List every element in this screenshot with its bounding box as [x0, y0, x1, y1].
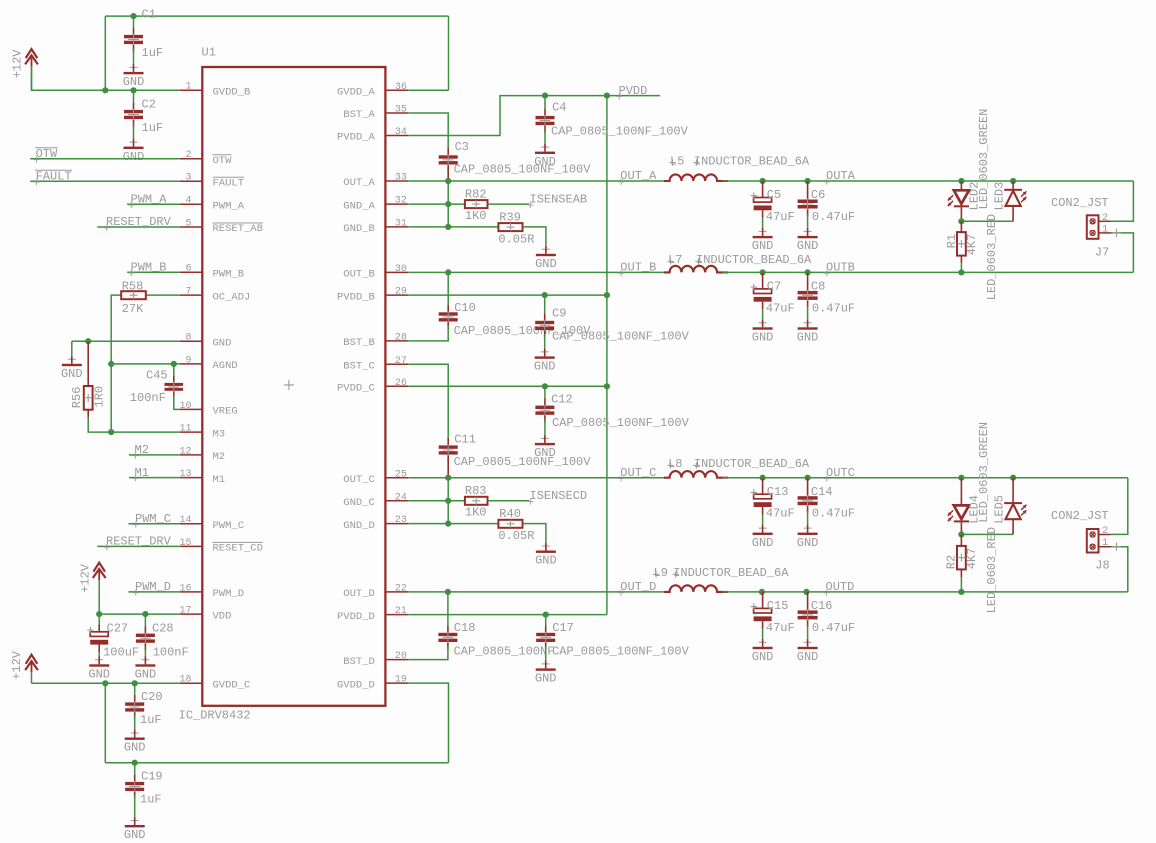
- svg-text:C3: C3: [455, 140, 469, 154]
- ground: [752, 227, 774, 253]
- U1 pin 10 (VREG): [179, 401, 237, 418]
- svg-text:C6: C6: [811, 188, 825, 202]
- capacitor C10: [439, 301, 476, 329]
- node C6 junction: [805, 178, 811, 184]
- wire C28 to ground: [144, 647, 146, 657]
- ground: [124, 729, 146, 755]
- wire C5 top lead: [762, 181, 764, 191]
- net label PWM_D: [133, 580, 171, 596]
- svg-text:INDUCTOR_BEAD_6A: INDUCTOR_BEAD_6A: [694, 457, 810, 471]
- J7 pin 2: [1099, 220, 1111, 222]
- svg-text:GND: GND: [797, 650, 819, 664]
- svg-text:+12V: +12V: [11, 49, 25, 79]
- capacitor C15 (polarized): [751, 599, 795, 635]
- net label ISENSEAB: [527, 192, 587, 208]
- wire C12 to ground: [544, 419, 546, 435]
- svg-text:PWM_D: PWM_D: [213, 588, 245, 600]
- node OUT_A bootstrap junction: [445, 178, 451, 184]
- U1 pin 24 (GND_C): [343, 492, 408, 509]
- svg-text:GND: GND: [123, 75, 145, 89]
- wire C9 to ground: [544, 334, 546, 348]
- wire LED cathode node row1: [961, 220, 1013, 222]
- svg-text:J8: J8: [1095, 559, 1109, 573]
- svg-text:LED5: LED5: [992, 495, 1006, 524]
- svg-text:AGND: AGND: [213, 360, 238, 372]
- svg-text:GVDD_A: GVDD_A: [337, 87, 376, 99]
- ground: [535, 660, 557, 686]
- inductor L7: [664, 253, 812, 272]
- svg-text:INDUCTOR_BEAD_6A: INDUCTOR_BEAD_6A: [673, 566, 789, 580]
- U1 pin 27 (BST_C): [343, 356, 408, 373]
- svg-text:LED3: LED3: [992, 182, 1006, 211]
- ground: [123, 138, 145, 164]
- capacitor C45: [146, 369, 183, 399]
- svg-text:J7: J7: [1095, 245, 1109, 259]
- wire GND_D pin 23: [408, 523, 498, 525]
- svg-text:+12V: +12V: [78, 563, 92, 593]
- node C27 junction: [96, 611, 102, 617]
- wire OUT_D pin 22 to inductor: [408, 591, 664, 593]
- ground: [535, 542, 557, 568]
- wire OUT_B after inductor: [723, 271, 1134, 273]
- wire OUT_B pin 30 to inductor: [408, 271, 664, 273]
- svg-text:U1: U1: [202, 46, 216, 60]
- wire C15 to ground: [762, 629, 764, 639]
- wire C10 to BST_B pin 28: [408, 326, 448, 341]
- svg-text:LED_0603_RED: LED_0603_RED: [985, 214, 999, 300]
- svg-text:GND: GND: [135, 668, 157, 682]
- net label RESET_DRV: [104, 215, 172, 231]
- svg-text:4: 4: [185, 196, 191, 207]
- ground: [752, 638, 774, 664]
- svg-text:32: 32: [395, 196, 407, 207]
- svg-text:4K7: 4K7: [965, 234, 979, 256]
- U1 pin 31 (GND_B): [343, 219, 408, 236]
- wire PVDD_A pin 34 to PVDD rail: [408, 96, 660, 136]
- wire C8 top lead: [807, 272, 809, 284]
- svg-text:10: 10: [179, 401, 191, 412]
- wire VDD pin 17: [99, 613, 180, 615]
- wire OUT_B down to C10: [447, 272, 449, 304]
- node PVDD C4 junction: [542, 93, 548, 99]
- wire C4 top lead: [544, 96, 546, 109]
- svg-text:36: 36: [395, 82, 407, 93]
- svg-text:3: 3: [185, 173, 191, 184]
- svg-text:R40: R40: [499, 507, 521, 521]
- svg-text:LED_0603_GREEN: LED_0603_GREEN: [977, 422, 991, 523]
- wire GND_A pin 32: [408, 203, 465, 205]
- ground: [123, 63, 145, 89]
- svg-text:6: 6: [185, 264, 191, 275]
- svg-text:C12: C12: [551, 393, 573, 407]
- svg-text:CAP_0805_100NF_100V: CAP_0805_100NF_100V: [552, 644, 690, 658]
- wire C17 top lead: [545, 615, 547, 626]
- wire M1: [129, 477, 180, 479]
- inductor L5: [664, 154, 810, 181]
- svg-text:C27: C27: [107, 621, 129, 635]
- svg-text:0.05R: 0.05R: [498, 529, 534, 543]
- svg-text:GND_B: GND_B: [343, 223, 375, 235]
- LED LED5: [1004, 478, 1026, 535]
- LED LED2: [948, 181, 969, 221]
- ground: [534, 348, 556, 374]
- svg-text:PWM_B: PWM_B: [213, 268, 245, 280]
- wire +12V to pin 1 GVDD_B: [32, 67, 180, 90]
- svg-text:GND: GND: [752, 650, 774, 664]
- svg-text:OUTD: OUTD: [826, 580, 855, 594]
- ground: [797, 638, 819, 664]
- U1 pin 3 (FAULT): [180, 173, 244, 190]
- svg-text:GND: GND: [124, 741, 146, 755]
- svg-text:OUT_C: OUT_C: [343, 474, 375, 486]
- svg-text:100uF: 100uF: [103, 645, 139, 659]
- svg-text:GND: GND: [797, 239, 819, 253]
- U1 pin 25 (OUT_C): [343, 469, 408, 486]
- wire C19 top lead: [134, 763, 136, 775]
- svg-text:C13: C13: [767, 485, 789, 499]
- svg-text:1uF: 1uF: [142, 46, 164, 60]
- U1 pin 15 (RESET_CD): [179, 538, 262, 555]
- svg-text:CAP_0805_100NF_100V: CAP_0805_100NF_100V: [454, 455, 592, 469]
- wire BST_C pin 27 down: [408, 364, 448, 438]
- U1 pin 17 (VDD): [179, 606, 231, 623]
- J8 pin 1: [1099, 546, 1111, 548]
- wire C3 to OUT_A: [447, 168, 449, 181]
- svg-text:CAP_0805_100NF_100V: CAP_0805_100NF_100V: [551, 125, 689, 139]
- inductor L8: [664, 457, 810, 478]
- svg-text:C15: C15: [767, 599, 789, 613]
- svg-text:13: 13: [179, 469, 191, 480]
- U1 pin 12 (M2): [179, 446, 225, 463]
- wire GVDD_A pin 36: [408, 89, 448, 91]
- svg-text:GVDD_C: GVDD_C: [213, 680, 251, 692]
- wire C11 to OUT_C: [447, 459, 449, 478]
- wire C18 to BST_D pin 20: [408, 646, 448, 660]
- capacitor C19: [125, 769, 162, 798]
- U1 pin 35 (BST_A): [343, 105, 408, 122]
- svg-text:FAULT: FAULT: [213, 178, 245, 190]
- U1 pin 19 (GVDD_D): [337, 675, 408, 692]
- svg-text:9: 9: [185, 355, 191, 366]
- net label OUTD: [823, 580, 854, 596]
- J8 pin 2: [1099, 534, 1111, 536]
- U1 pin 11 (M3): [179, 424, 225, 441]
- resistor R1 leads: [960, 221, 962, 232]
- svg-text:OUTA: OUTA: [826, 169, 856, 183]
- wire OUT_A after inductor: [723, 180, 1134, 182]
- svg-text:GND_D: GND_D: [343, 520, 375, 532]
- svg-text:GND: GND: [124, 828, 146, 842]
- ground: [797, 524, 819, 550]
- svg-text:+12V: +12V: [10, 650, 24, 680]
- svg-text:PVDD_A: PVDD_A: [337, 132, 376, 144]
- wire GND pin 8: [72, 340, 180, 342]
- wire OC_ADJ right of R58: [146, 294, 180, 296]
- wire C14 top lead: [807, 478, 809, 490]
- svg-text:GND: GND: [535, 554, 557, 568]
- +12V supply: [78, 563, 105, 614]
- svg-text:GND: GND: [534, 155, 556, 169]
- U1 pin 6 (PWM_B): [180, 264, 244, 281]
- svg-text:26: 26: [395, 378, 407, 389]
- wire RESET_AB: [97, 226, 179, 228]
- svg-text:VDD: VDD: [213, 610, 232, 622]
- wire C20 to ground: [134, 716, 136, 730]
- svg-text:GND: GND: [61, 367, 83, 381]
- svg-text:OUT_A: OUT_A: [343, 177, 375, 189]
- ground: [535, 245, 557, 271]
- node C17 junction: [543, 612, 549, 618]
- svg-text:8: 8: [185, 333, 191, 344]
- ground: [534, 434, 556, 460]
- svg-text:C16: C16: [811, 599, 833, 613]
- net label OUT_A: [618, 169, 657, 185]
- svg-text:C45: C45: [146, 369, 168, 383]
- wire R58 left down to AGND/M3: [111, 295, 121, 432]
- svg-text:M1: M1: [135, 466, 149, 480]
- svg-text:0.47uF: 0.47uF: [812, 210, 855, 224]
- wire M2: [129, 454, 180, 456]
- IC U1 DRV8432: [179, 46, 386, 723]
- node +12V junction: [102, 87, 108, 93]
- svg-text:RESET_CD: RESET_CD: [213, 543, 263, 555]
- U1 pin 28 (BST_B): [343, 333, 408, 350]
- wire C20 top lead: [134, 683, 136, 695]
- wire C16 to ground: [807, 625, 809, 639]
- node C7 junction: [760, 269, 766, 275]
- svg-text:M3: M3: [213, 428, 226, 440]
- svg-text:OTW: OTW: [36, 147, 58, 161]
- node GVDD_C junction A: [102, 680, 108, 686]
- resistor R83: [465, 484, 488, 519]
- capacitor C1: [124, 8, 156, 52]
- svg-text:C5: C5: [767, 188, 781, 202]
- net label RESET_DRV: [104, 535, 172, 551]
- +12V supply: [11, 49, 38, 91]
- wire C27 to ground: [98, 652, 100, 656]
- svg-text:CON2_JST: CON2_JST: [1051, 509, 1109, 523]
- svg-text:BST_B: BST_B: [343, 337, 375, 349]
- capacitor C28: [136, 621, 174, 650]
- wire OUT_D down to C18: [447, 592, 449, 625]
- svg-text:INDUCTOR_BEAD_6A: INDUCTOR_BEAD_6A: [696, 253, 812, 267]
- inductor L9: [653, 566, 789, 592]
- svg-text:C19: C19: [141, 769, 163, 783]
- wire C4 to ground: [544, 129, 546, 144]
- node C9 junction: [542, 292, 548, 298]
- U1 pin 9 (AGND): [180, 355, 238, 372]
- svg-text:47uF: 47uF: [766, 621, 795, 635]
- wire C7 top lead: [762, 272, 764, 282]
- ground: [124, 817, 146, 843]
- svg-text:R58: R58: [122, 280, 144, 294]
- svg-text:RESET_DRV: RESET_DRV: [106, 535, 172, 549]
- svg-text:CON2_JST: CON2_JST: [1051, 196, 1109, 210]
- svg-text:GND: GND: [535, 257, 557, 271]
- svg-text:16: 16: [179, 583, 191, 594]
- svg-text:31: 31: [395, 219, 407, 230]
- svg-text:FAULT: FAULT: [36, 170, 72, 184]
- ground: [752, 524, 774, 550]
- svg-text:OUTC: OUTC: [826, 466, 855, 480]
- wire C8 to ground: [807, 305, 809, 319]
- svg-text:47uF: 47uF: [766, 507, 795, 521]
- net label OUT_B: [618, 261, 656, 277]
- svg-text:GND: GND: [213, 337, 232, 349]
- svg-text:R56: R56: [70, 387, 84, 409]
- capacitor C6: [798, 188, 826, 216]
- capacitor C20: [125, 690, 162, 719]
- node C8 junction: [805, 269, 811, 275]
- svg-text:OUT_D: OUT_D: [343, 588, 375, 600]
- svg-text:C1: C1: [142, 8, 156, 22]
- net label OUTB: [824, 261, 855, 277]
- wire R56 top lead: [87, 341, 89, 386]
- svg-text:GVDD_B: GVDD_B: [213, 87, 251, 99]
- net label PWM_B: [128, 260, 166, 276]
- svg-text:GND: GND: [535, 672, 557, 686]
- wire PVDD_D pin 21: [408, 614, 607, 616]
- svg-text:1: 1: [1102, 538, 1108, 549]
- svg-text:PVDD_B: PVDD_B: [337, 291, 375, 303]
- net label OUTC: [824, 466, 855, 482]
- svg-text:GND_A: GND_A: [343, 200, 375, 212]
- capacitor C9: [535, 306, 566, 337]
- wire R56 to M3 row: [88, 417, 111, 432]
- svg-text:M2: M2: [213, 451, 226, 463]
- wire top rail: [105, 15, 448, 17]
- svg-text:1K0: 1K0: [465, 506, 487, 520]
- wire top rail down to GVDD_A: [448, 16, 450, 90]
- wire R40 to ground: [523, 524, 546, 543]
- resistor R2: [944, 546, 979, 570]
- wire LED cathode node row2: [961, 533, 1013, 535]
- capacitor C11: [439, 433, 476, 463]
- svg-text:GND: GND: [797, 536, 819, 550]
- wire OUT_C rail down to J8: [1110, 478, 1128, 535]
- LED LED3: [1004, 181, 1026, 221]
- svg-text:R82: R82: [465, 187, 487, 201]
- ground: [797, 319, 819, 345]
- wire PVDD vertical rail: [606, 96, 608, 615]
- node LED3 junction: [1010, 178, 1016, 184]
- resistor R40: [498, 507, 534, 543]
- node C19 junction: [132, 760, 138, 766]
- svg-text:27: 27: [395, 356, 407, 367]
- svg-text:5: 5: [185, 218, 191, 229]
- svg-text:47uF: 47uF: [766, 301, 795, 315]
- connector J7 (CON2_JST): [1051, 196, 1121, 259]
- U1 pin 16 (PWM_D): [179, 583, 244, 600]
- svg-text:C28: C28: [152, 621, 174, 635]
- node C2 junction: [130, 87, 136, 93]
- svg-text:15: 15: [179, 538, 191, 549]
- wire C13 top lead: [762, 478, 764, 488]
- wire C7 to ground: [762, 309, 764, 319]
- LED LED4: [948, 478, 969, 535]
- node OUT_B bootstrap junction: [445, 269, 451, 275]
- svg-text:100nF: 100nF: [153, 645, 189, 659]
- node GND_D junction: [445, 521, 451, 527]
- svg-text:R1: R1: [945, 234, 959, 248]
- svg-text:PWM_C: PWM_C: [135, 512, 171, 526]
- svg-text:OUT_B: OUT_B: [343, 269, 375, 281]
- svg-text:INDUCTOR_BEAD_6A: INDUCTOR_BEAD_6A: [694, 154, 810, 168]
- wire C9 top lead: [544, 295, 546, 313]
- wire BST_A pin 35: [408, 113, 448, 148]
- svg-text:19: 19: [395, 675, 407, 686]
- svg-text:PVDD_C: PVDD_C: [337, 383, 375, 395]
- svg-text:11: 11: [179, 424, 191, 435]
- resistor R39: [498, 210, 534, 246]
- svg-text:1: 1: [1102, 224, 1108, 235]
- wire PWM_B: [127, 271, 180, 273]
- wire C45 top lead: [173, 364, 175, 376]
- svg-text:CAP_0805_100NF_100V: CAP_0805_100NF_100V: [454, 163, 592, 177]
- svg-text:29: 29: [395, 287, 407, 298]
- ground: [797, 227, 819, 253]
- U1 pin 4 (PWM_A): [180, 196, 245, 213]
- wire C14 to ground: [807, 511, 809, 525]
- wire R39 to ground: [523, 227, 546, 246]
- svg-text:GND: GND: [797, 331, 819, 345]
- U1 pin 7 (OC_ADJ): [180, 287, 251, 304]
- svg-text:28: 28: [395, 333, 407, 344]
- svg-text:C20: C20: [141, 690, 163, 704]
- svg-text:2: 2: [1102, 526, 1108, 537]
- svg-text:100nF: 100nF: [130, 391, 166, 405]
- capacitor C18: [438, 621, 475, 650]
- wire C12 top lead: [544, 386, 546, 398]
- svg-text:PWM_A: PWM_A: [213, 201, 245, 213]
- svg-text:CAP_0805_100NF_100V: CAP_0805_100NF_100V: [552, 416, 690, 430]
- resistor R82: [465, 187, 488, 222]
- svg-text:C17: C17: [552, 621, 574, 635]
- U1 pin 13 (M1): [179, 469, 225, 486]
- svg-text:PVDD_D: PVDD_D: [337, 611, 375, 623]
- svg-text:CAP_0805_100NF_100V: CAP_0805_100NF_100V: [552, 330, 690, 344]
- resistor R58: [121, 280, 146, 317]
- U1 pin 22 (OUT_D): [343, 584, 408, 601]
- wire C1 top lead: [133, 16, 135, 27]
- capacitor C5 (polarized): [751, 188, 795, 224]
- net label M2: [132, 443, 149, 459]
- svg-text:21: 21: [395, 606, 407, 617]
- J7 pin 1: [1099, 232, 1111, 234]
- svg-text:12: 12: [179, 446, 191, 457]
- U1 pin 33 (OUT_A): [343, 173, 408, 190]
- svg-text:R83: R83: [465, 484, 487, 498]
- svg-text:27K: 27K: [122, 302, 144, 316]
- svg-text:1uF: 1uF: [142, 121, 164, 135]
- svg-text:OUT_B: OUT_B: [620, 261, 656, 275]
- wire PWM_D: [128, 591, 179, 593]
- net label OTW: [33, 147, 58, 163]
- svg-text:25: 25: [395, 469, 407, 480]
- wire C13 to ground: [762, 515, 764, 525]
- capacitor C14: [798, 485, 833, 513]
- svg-text:18: 18: [179, 675, 191, 686]
- capacitor C7 (polarized): [751, 280, 795, 316]
- svg-text:RESET_DRV: RESET_DRV: [106, 215, 172, 229]
- resistor R1: [945, 232, 979, 256]
- svg-text:CAP_0805_100NF: CAP_0805_100NF: [454, 644, 555, 658]
- wire C19 to ground: [134, 795, 136, 817]
- U1 pin 29 (PVDD_B): [337, 287, 408, 304]
- wire GND to ground symbol: [71, 341, 73, 356]
- svg-text:GVDD_D: GVDD_D: [337, 679, 375, 691]
- svg-text:BST_A: BST_A: [343, 109, 375, 121]
